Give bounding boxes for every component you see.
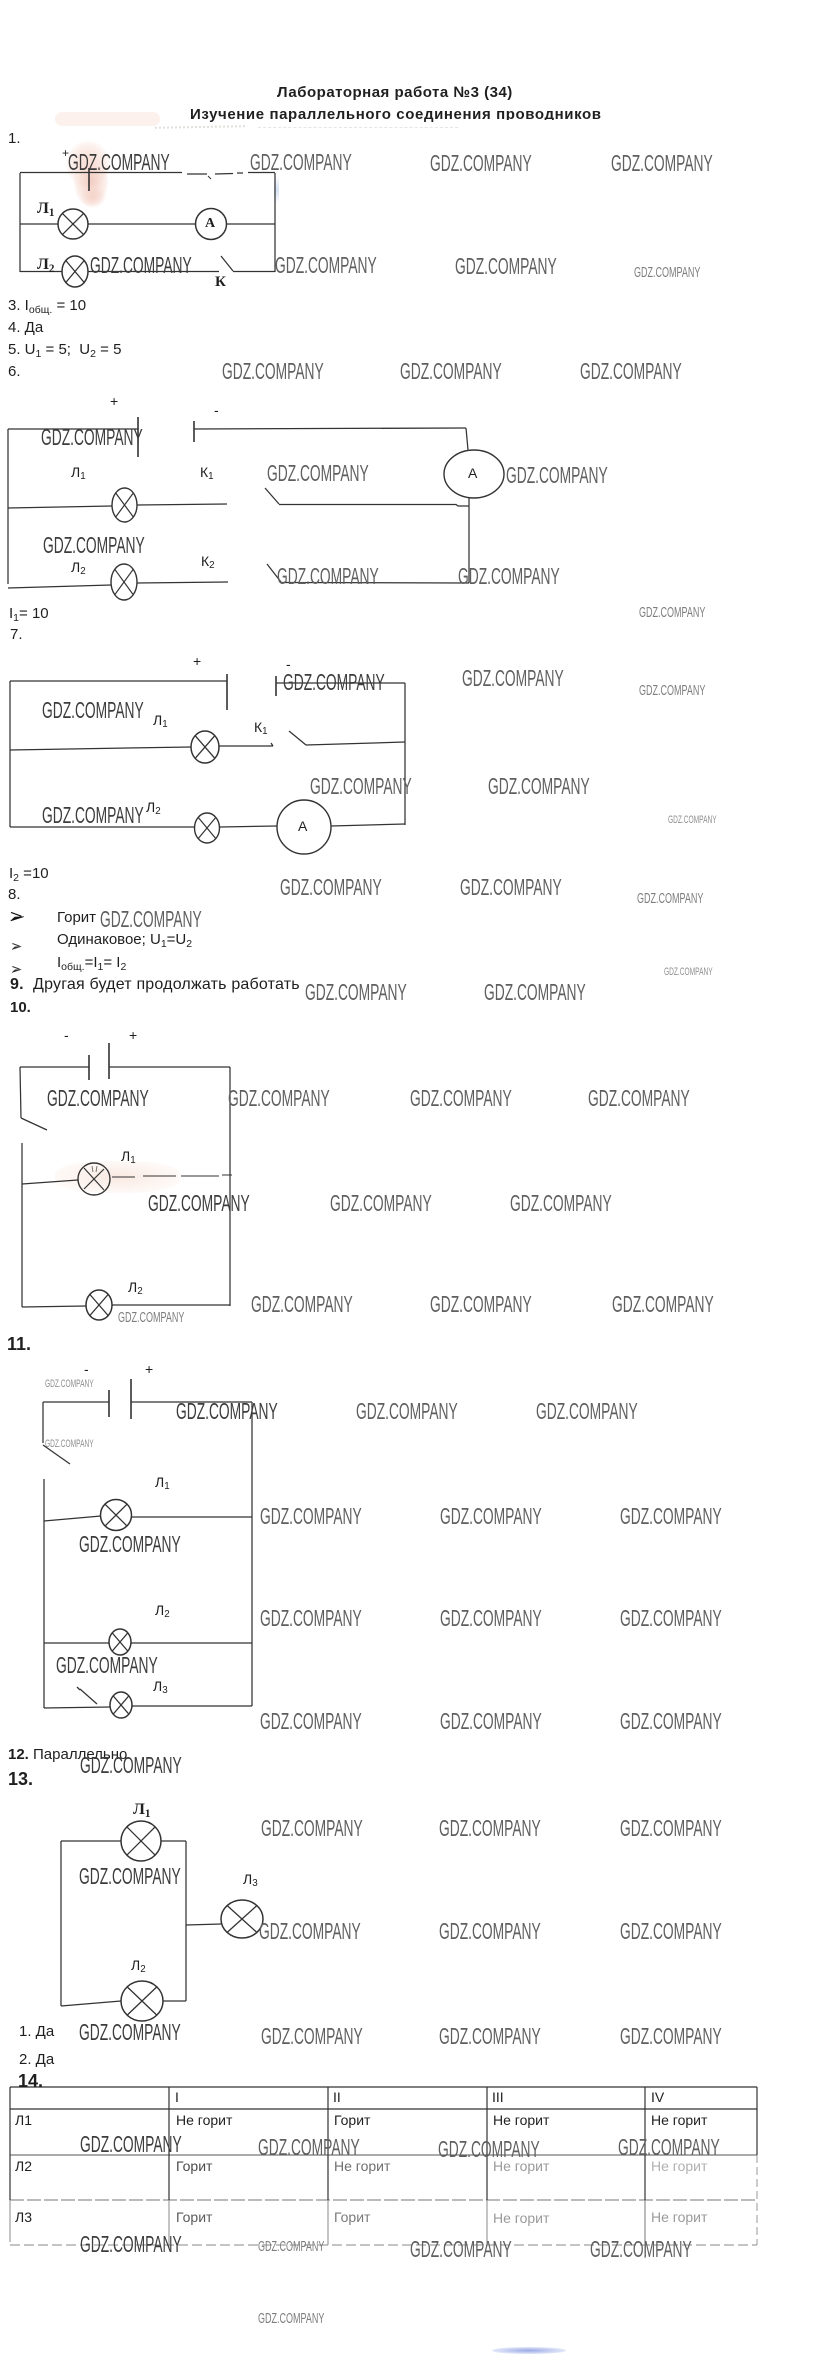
battery short bar (88, 1055, 90, 1080)
wire top dashes (187, 173, 275, 175)
table col border 4 (644, 2087, 646, 2200)
lamp Л1 (101, 1500, 132, 1531)
table header bottom border (10, 2108, 757, 2110)
wire top left (43, 1401, 109, 1403)
battery minus (286, 656, 291, 672)
lamp Л1 (112, 488, 137, 522)
wire row2 mid (89, 271, 220, 273)
title line 1 (277, 84, 513, 101)
wire row2 right (233, 271, 275, 273)
wire top right (276, 682, 405, 684)
lamp Л3 (221, 1900, 263, 1938)
wire left lower (43, 1479, 45, 1708)
lamp L1 (hand drawn) (78, 1163, 110, 1195)
lamp Л1 (58, 209, 88, 239)
wire top right (194, 428, 466, 429)
battery long bar (130, 1379, 132, 1419)
wire bottom left (22, 1306, 86, 1307)
wire top left (20, 1066, 89, 1068)
battery minus (214, 402, 219, 418)
battery plus (193, 653, 201, 669)
stray mark (208, 176, 211, 179)
wire row1 mid (219, 743, 273, 746)
label Л2 (155, 1602, 170, 1618)
wire row1 right (279, 505, 469, 507)
wire left upper (42, 1402, 44, 1443)
wire row1 mid (137, 504, 227, 505)
ammeter letter (468, 465, 477, 481)
wire lamp1 left (22, 1180, 78, 1184)
battery long bar (137, 417, 139, 457)
label Л1 (71, 464, 86, 480)
switch blade row3 (77, 1687, 97, 1704)
wire right vertical (404, 683, 406, 825)
wire right drop to ammeter (466, 428, 468, 450)
wire lamp2 right (131, 1642, 252, 1644)
label К1 (200, 464, 214, 480)
switch К2 (267, 564, 281, 582)
ammeter letter (298, 818, 307, 834)
pink artifact blobs (497, 120, 603, 125)
battery short bar (193, 421, 195, 442)
table left border (9, 2087, 11, 2200)
lamp Л2 (86, 1290, 112, 1320)
wire bottom right (112, 1304, 230, 1306)
switch blade (21, 1118, 47, 1130)
table texts (175, 2089, 179, 2105)
battery short bar (108, 1390, 110, 1417)
wire bottom right (163, 2000, 186, 2002)
wire top left (61, 1840, 121, 1842)
wire row2 left (20, 271, 62, 273)
table row border 2 (10, 2199, 757, 2201)
switch К1 (289, 731, 306, 745)
battery minus (84, 1361, 89, 1377)
wire row1 left (10, 747, 191, 750)
battery plus (129, 1027, 137, 1043)
battery minus (64, 1027, 69, 1043)
battery long bar (226, 674, 228, 710)
wire row2 mid (137, 582, 228, 583)
title line 2 (190, 106, 602, 123)
ammeter A (444, 450, 504, 498)
wire left vertical (9, 681, 11, 827)
label Л2 (131, 1957, 146, 1973)
table col border 3 (486, 2087, 488, 2200)
wire right vertical (229, 1067, 231, 1306)
bullet arrows (9, 909, 25, 923)
table bottom border (10, 2244, 757, 2246)
lamp Л2 (62, 256, 88, 287)
table right border (756, 2087, 758, 2155)
label Л1 (37, 200, 55, 218)
switch К1 (265, 488, 279, 504)
wire right vertical (251, 1402, 253, 1706)
wire top right (131, 1401, 252, 1403)
ammeter A (277, 800, 331, 854)
label Л2 (37, 256, 55, 274)
lamp Л3 (110, 1692, 132, 1718)
label К2 (201, 553, 215, 569)
wire left lower (21, 1143, 23, 1307)
wire right vertical (274, 173, 276, 272)
wire lamp1 left (44, 1516, 101, 1521)
wire top right (161, 1840, 186, 1842)
wire row1 left (8, 506, 112, 508)
switch blade (43, 1445, 70, 1464)
switch К label (215, 274, 226, 291)
lamp Л2 (111, 564, 137, 600)
wire left upper (20, 1067, 21, 1118)
wire row2 left (8, 585, 111, 588)
wire row2 right (281, 582, 469, 585)
wire lamp1 right dashes (112, 1175, 232, 1177)
wire bottom left (44, 1707, 110, 1708)
lamp Л2 (195, 813, 220, 843)
table col border 2 (327, 2087, 329, 2200)
wire right vertical (468, 498, 470, 583)
label Л1 (155, 1474, 170, 1490)
label Л1 (133, 1801, 151, 1819)
wire row2 right (331, 824, 405, 826)
table col border 1 (168, 2087, 170, 2200)
wire right vertical (185, 1841, 187, 2001)
table row border 1 (10, 2154, 757, 2156)
battery long bar (108, 1043, 110, 1079)
wire top left segment (20, 172, 182, 174)
ammeter letter (205, 216, 215, 232)
wire row1 right (227, 223, 276, 225)
wire lamp1 right (132, 1516, 252, 1518)
label К1 (254, 719, 268, 735)
switch К (221, 256, 233, 271)
wire left vertical (19, 173, 21, 272)
wire row1 mid (88, 223, 196, 225)
lamp Л1 (191, 731, 219, 763)
battery short bar (275, 676, 277, 696)
wire row1 left (20, 223, 58, 225)
label Л2 (128, 1279, 143, 1295)
battery plus (145, 1361, 153, 1377)
table top border (10, 2086, 757, 2088)
wire middle to L3 (186, 1924, 221, 1925)
label Л3 (243, 1871, 258, 1887)
wire left vertical (60, 1841, 62, 2006)
wire left vertical (7, 429, 9, 584)
wire top left (10, 680, 227, 682)
battery plus label (62, 146, 69, 160)
label Л3 (153, 1678, 168, 1694)
wire bottom left (61, 2001, 121, 2006)
wire top right (109, 1066, 230, 1068)
lamp Л2 (121, 1981, 163, 2021)
wire row2 left (10, 826, 194, 828)
ammeter A1 (196, 209, 227, 240)
label Л1 (153, 712, 168, 728)
lamp Л1 (121, 1821, 161, 1861)
wire lamp2 left (44, 1642, 109, 1644)
label Л2 (71, 559, 86, 575)
battery B1 bar (88, 168, 90, 191)
wire lamp3 right (132, 1705, 252, 1707)
wire top left (8, 428, 138, 430)
label Л1 (121, 1148, 136, 1164)
wire row1 right (306, 742, 405, 745)
label Л2 (146, 799, 161, 815)
battery plus (110, 393, 118, 409)
lamp Л2 (109, 1629, 131, 1655)
wire row2 mid (220, 826, 277, 827)
